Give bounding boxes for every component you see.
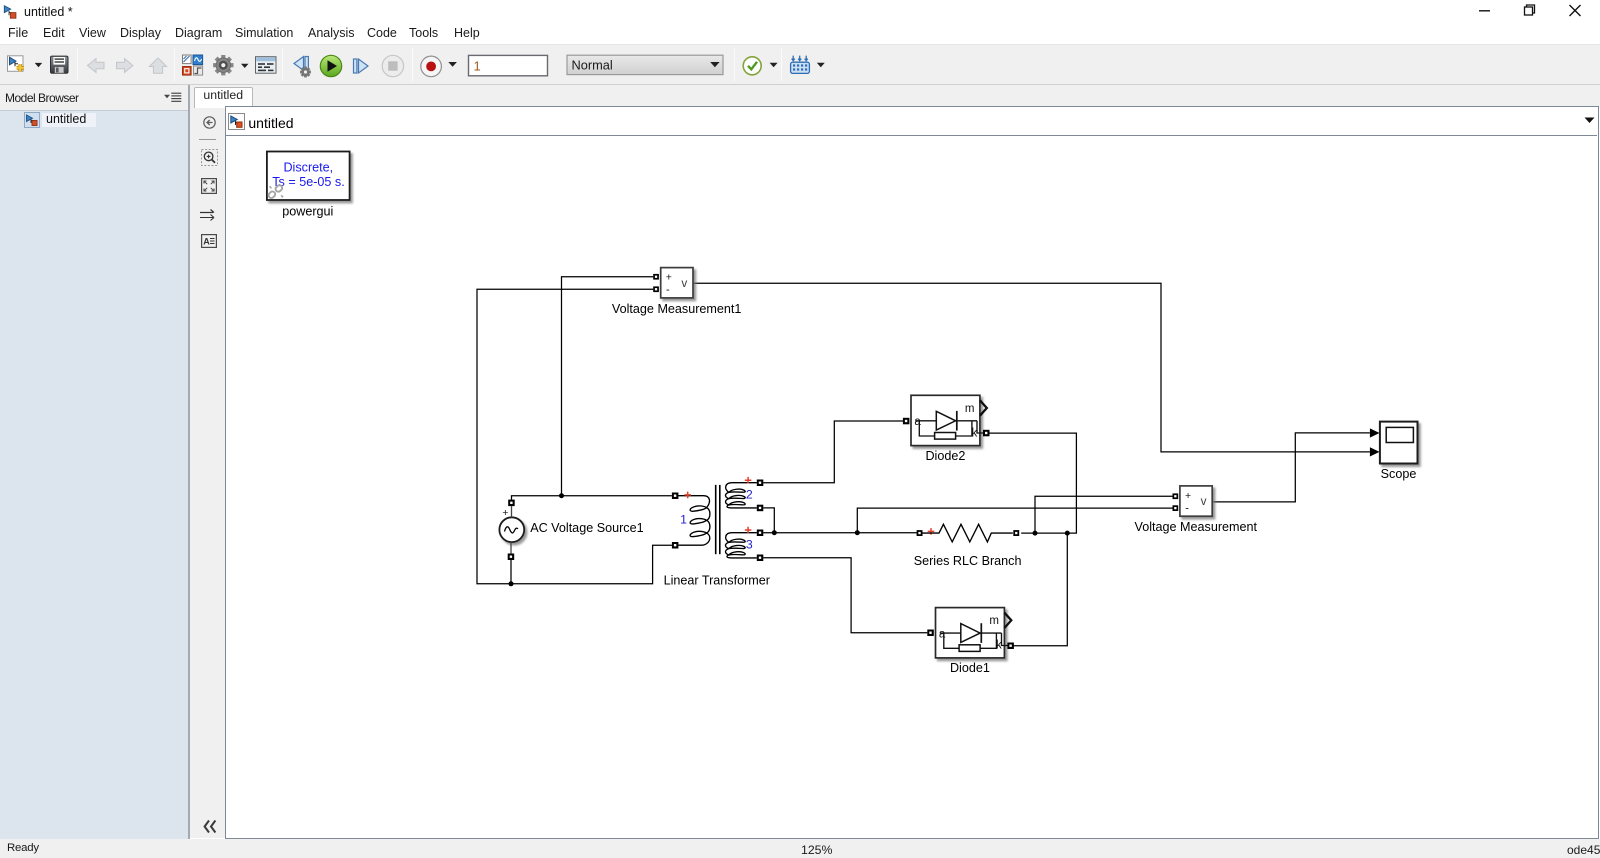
svg-text:1: 1: [474, 58, 481, 73]
svg-text:Normal: Normal: [572, 57, 613, 72]
svg-text:A: A: [203, 236, 210, 246]
